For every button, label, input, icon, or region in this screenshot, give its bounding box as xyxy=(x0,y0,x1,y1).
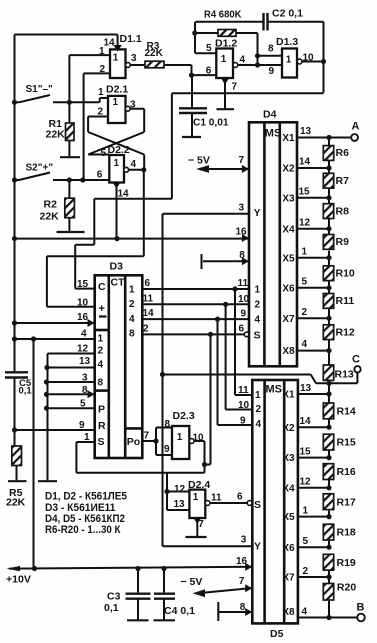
svg-text:X5: X5 xyxy=(282,253,295,264)
svg-text:7: 7 xyxy=(239,155,245,166)
svg-text:R9: R9 xyxy=(336,236,350,248)
svg-text:22K: 22K xyxy=(6,497,26,509)
svg-text:7: 7 xyxy=(232,82,238,93)
svg-text:22K: 22K xyxy=(145,48,164,59)
svg-text:1: 1 xyxy=(303,505,309,516)
svg-text:C1 0,01: C1 0,01 xyxy=(193,117,229,129)
svg-text:13: 13 xyxy=(79,356,91,367)
svg-text:X4: X4 xyxy=(282,224,295,235)
svg-text:1: 1 xyxy=(193,492,199,503)
svg-text:3: 3 xyxy=(239,202,245,213)
svg-text:R14: R14 xyxy=(337,406,356,418)
svg-text:8: 8 xyxy=(82,385,88,396)
svg-text:1: 1 xyxy=(113,97,119,108)
svg-text:− 5V: − 5V xyxy=(181,576,203,588)
svg-text:9: 9 xyxy=(164,444,170,455)
svg-text:D2.3: D2.3 xyxy=(173,410,195,422)
svg-text:2: 2 xyxy=(100,64,106,75)
svg-text:4: 4 xyxy=(302,606,308,617)
svg-text:R13: R13 xyxy=(335,369,354,381)
svg-text:R6-R20 - 1...30 К: R6-R20 - 1...30 К xyxy=(45,524,121,536)
svg-text:X3: X3 xyxy=(282,453,295,464)
svg-text:X7: X7 xyxy=(282,314,295,325)
svg-text:X6: X6 xyxy=(282,283,295,294)
svg-text:D1, D2 - К561ЛЕ5: D1, D2 - К561ЛЕ5 xyxy=(45,491,127,503)
svg-text:1: 1 xyxy=(255,390,261,401)
svg-text:5: 5 xyxy=(303,536,309,547)
svg-text:11: 11 xyxy=(211,493,222,504)
svg-text:8: 8 xyxy=(239,250,245,261)
svg-text:+10V: +10V xyxy=(6,574,31,586)
svg-text:16: 16 xyxy=(77,312,89,323)
svg-text:2: 2 xyxy=(143,323,149,334)
svg-text:R: R xyxy=(98,420,106,432)
svg-text:4: 4 xyxy=(131,159,137,170)
svg-text:D3: D3 xyxy=(110,261,124,273)
svg-text:X6: X6 xyxy=(282,543,295,554)
svg-text:7: 7 xyxy=(198,519,204,530)
svg-text:15: 15 xyxy=(299,186,311,197)
svg-text:8: 8 xyxy=(165,419,171,430)
svg-text:2: 2 xyxy=(255,300,261,311)
svg-text:12: 12 xyxy=(299,217,311,228)
svg-text:Y: Y xyxy=(254,541,261,553)
svg-text:10: 10 xyxy=(238,400,250,411)
svg-text:S1"–": S1"–" xyxy=(26,84,54,95)
svg-text:11: 11 xyxy=(238,278,249,289)
svg-text:D2.2: D2.2 xyxy=(108,144,130,156)
svg-text:2: 2 xyxy=(98,346,104,357)
svg-text:10: 10 xyxy=(193,433,205,444)
svg-text:22K: 22K xyxy=(40,211,60,223)
svg-text:1: 1 xyxy=(177,432,183,443)
svg-text:X4: X4 xyxy=(282,483,295,494)
svg-text:D1.1: D1.1 xyxy=(120,33,142,45)
svg-text:15: 15 xyxy=(77,279,89,290)
svg-text:1: 1 xyxy=(129,284,135,295)
svg-text:0,1: 0,1 xyxy=(104,602,119,614)
svg-text:C2 0,1: C2 0,1 xyxy=(272,8,303,20)
svg-text:C3: C3 xyxy=(107,591,121,603)
svg-text:14: 14 xyxy=(143,308,155,319)
svg-text:R8: R8 xyxy=(336,205,350,217)
svg-text:1: 1 xyxy=(114,158,120,169)
svg-text:4: 4 xyxy=(302,339,308,350)
svg-text:S: S xyxy=(254,499,261,511)
svg-text:4: 4 xyxy=(255,314,261,325)
svg-text:15: 15 xyxy=(300,446,312,457)
svg-text:Y: Y xyxy=(254,207,261,219)
svg-text:1: 1 xyxy=(302,246,308,257)
svg-text:13: 13 xyxy=(300,383,312,394)
svg-text:8: 8 xyxy=(268,44,274,55)
svg-text:X5: X5 xyxy=(282,512,295,523)
svg-text:6: 6 xyxy=(145,278,151,289)
svg-text:22K: 22K xyxy=(46,129,66,141)
svg-text:R2: R2 xyxy=(44,199,58,211)
svg-text:X1: X1 xyxy=(282,133,295,144)
svg-text:6: 6 xyxy=(206,66,212,77)
svg-text:14: 14 xyxy=(299,157,311,168)
svg-text:13: 13 xyxy=(174,499,186,510)
svg-text:1: 1 xyxy=(99,46,105,57)
svg-text:14: 14 xyxy=(300,416,312,427)
svg-text:Po: Po xyxy=(127,436,140,448)
svg-text:6: 6 xyxy=(237,492,243,503)
svg-text:R18: R18 xyxy=(337,527,356,539)
svg-text:7: 7 xyxy=(239,576,245,587)
svg-text:11: 11 xyxy=(143,293,154,304)
svg-text:1: 1 xyxy=(221,54,227,65)
svg-text:2: 2 xyxy=(98,107,104,118)
svg-text:MS: MS xyxy=(265,128,282,140)
svg-text:D1.3: D1.3 xyxy=(276,36,298,48)
svg-text:10: 10 xyxy=(77,298,89,309)
svg-text:+: + xyxy=(99,303,105,315)
svg-text:R20: R20 xyxy=(337,581,356,593)
svg-text:C: C xyxy=(98,281,106,293)
svg-text:R10: R10 xyxy=(336,267,355,279)
svg-text:X1: X1 xyxy=(282,390,295,401)
svg-text:1: 1 xyxy=(98,87,104,98)
svg-text:5: 5 xyxy=(302,276,308,287)
svg-text:8: 8 xyxy=(240,602,246,613)
svg-text:D2.4: D2.4 xyxy=(188,479,210,491)
svg-text:5: 5 xyxy=(80,399,86,410)
svg-text:2: 2 xyxy=(129,299,135,310)
svg-text:10: 10 xyxy=(238,294,250,305)
svg-text:P: P xyxy=(98,404,105,416)
svg-text:CT: CT xyxy=(111,277,126,289)
svg-text:R19: R19 xyxy=(337,557,356,569)
svg-text:R7: R7 xyxy=(336,175,350,187)
svg-text:− 5V: − 5V xyxy=(188,155,210,167)
svg-text:12: 12 xyxy=(174,484,186,495)
svg-text:D5: D5 xyxy=(270,628,284,640)
svg-text:7: 7 xyxy=(144,430,150,441)
svg-text:R15: R15 xyxy=(337,437,356,449)
svg-text:12: 12 xyxy=(300,477,312,488)
svg-text:1: 1 xyxy=(84,432,90,443)
svg-text:1: 1 xyxy=(286,55,292,66)
svg-text:8: 8 xyxy=(129,329,135,340)
svg-text:X2: X2 xyxy=(282,164,295,175)
svg-text:S: S xyxy=(98,436,105,448)
svg-text:R16: R16 xyxy=(337,466,356,478)
svg-text:R12: R12 xyxy=(336,326,355,338)
svg-text:5: 5 xyxy=(206,43,212,54)
svg-text:4: 4 xyxy=(240,55,246,66)
svg-text:6: 6 xyxy=(97,170,103,181)
svg-text:6: 6 xyxy=(239,323,245,334)
svg-text:1: 1 xyxy=(113,53,119,64)
svg-text:10: 10 xyxy=(303,53,315,64)
svg-text:X8: X8 xyxy=(282,607,295,618)
svg-text:X3: X3 xyxy=(282,193,295,204)
svg-text:3: 3 xyxy=(131,53,137,64)
svg-text:D4: D4 xyxy=(263,109,277,121)
svg-text:1: 1 xyxy=(255,284,261,295)
svg-text:3: 3 xyxy=(241,534,247,545)
svg-text:MS: MS xyxy=(266,384,283,396)
svg-text:D2.1: D2.1 xyxy=(106,84,128,96)
svg-text:X8: X8 xyxy=(282,346,295,357)
svg-text:2: 2 xyxy=(256,404,262,415)
svg-text:12: 12 xyxy=(77,344,89,355)
svg-text:S: S xyxy=(254,329,261,341)
svg-text:3: 3 xyxy=(130,100,136,111)
svg-text:S2"+": S2"+" xyxy=(26,163,54,174)
svg-text:4: 4 xyxy=(256,419,262,430)
svg-text:A: A xyxy=(352,121,360,133)
svg-text:X7: X7 xyxy=(282,573,295,584)
svg-text:2: 2 xyxy=(302,307,308,318)
svg-text:B: B xyxy=(357,602,365,614)
svg-text:4: 4 xyxy=(81,329,87,340)
svg-text:4: 4 xyxy=(98,360,104,371)
svg-text:9: 9 xyxy=(241,309,247,320)
svg-text:C: C xyxy=(352,354,360,366)
svg-text:13: 13 xyxy=(300,126,312,137)
svg-text:14: 14 xyxy=(104,38,116,49)
svg-text:16: 16 xyxy=(236,227,248,238)
svg-text:14: 14 xyxy=(118,189,130,200)
svg-text:3: 3 xyxy=(82,373,88,384)
svg-text:C4 0,1: C4 0,1 xyxy=(164,605,195,617)
svg-text:R4 680K: R4 680K xyxy=(204,9,242,21)
svg-text:9: 9 xyxy=(269,66,275,77)
svg-text:R17: R17 xyxy=(337,496,356,508)
svg-text:9: 9 xyxy=(79,420,85,431)
svg-text:0,1: 0,1 xyxy=(19,386,33,397)
svg-text:9: 9 xyxy=(240,415,246,426)
svg-text:X2: X2 xyxy=(282,423,295,434)
svg-text:D1.2: D1.2 xyxy=(215,38,237,50)
svg-text:2: 2 xyxy=(303,566,309,577)
svg-text:R6: R6 xyxy=(336,147,350,159)
svg-text:8: 8 xyxy=(98,378,104,389)
svg-text:1: 1 xyxy=(98,334,104,345)
svg-text:R11: R11 xyxy=(336,295,355,307)
svg-text:4: 4 xyxy=(129,314,135,325)
svg-text:16: 16 xyxy=(236,556,248,567)
svg-text:5: 5 xyxy=(101,148,107,159)
svg-text:11: 11 xyxy=(238,385,249,396)
